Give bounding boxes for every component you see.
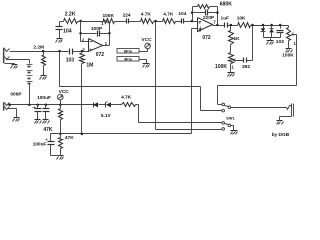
svg-text:by DGB: by DGB xyxy=(272,132,290,138)
svg-text:392: 392 xyxy=(242,64,250,70)
svg-text:072: 072 xyxy=(96,52,105,58)
svg-text:103: 103 xyxy=(276,39,284,45)
svg-text:6: 6 xyxy=(199,20,201,24)
svg-text:220P: 220P xyxy=(203,15,215,21)
svg-text:5.1V: 5.1V xyxy=(101,113,112,119)
svg-text:100K: 100K xyxy=(282,53,294,59)
svg-text:100P: 100P xyxy=(91,26,103,32)
svg-text:1M: 1M xyxy=(86,62,93,68)
svg-text:4.7K: 4.7K xyxy=(141,12,152,18)
svg-text:1uF: 1uF xyxy=(221,15,230,21)
svg-text:5: 5 xyxy=(199,29,201,33)
svg-text:10K: 10K xyxy=(237,15,246,21)
svg-text:2: 2 xyxy=(82,38,84,42)
svg-text:006P: 006P xyxy=(10,91,22,97)
svg-text:VCC: VCC xyxy=(141,37,152,43)
svg-text:47K: 47K xyxy=(43,127,53,133)
svg-text:100K: 100K xyxy=(102,13,114,19)
svg-text:680K: 680K xyxy=(220,2,233,8)
svg-text:1K: 1K xyxy=(234,36,241,42)
svg-text:47K: 47K xyxy=(65,135,74,141)
svg-text:072: 072 xyxy=(202,35,211,41)
svg-text:224: 224 xyxy=(123,13,131,19)
svg-text:2.2K: 2.2K xyxy=(65,11,76,17)
svg-text:4.7K: 4.7K xyxy=(163,12,174,18)
svg-text:4Pin: 4Pin xyxy=(124,57,133,62)
svg-text:100uF: 100uF xyxy=(33,142,47,148)
svg-text:104: 104 xyxy=(178,11,186,17)
svg-text:VCC: VCC xyxy=(59,89,70,95)
svg-text:103: 103 xyxy=(66,58,75,64)
svg-text:SW1: SW1 xyxy=(226,115,235,120)
svg-text:8Pin: 8Pin xyxy=(124,49,133,54)
svg-text:100uF: 100uF xyxy=(37,95,51,101)
svg-text:4.7K: 4.7K xyxy=(121,95,132,101)
svg-text:104: 104 xyxy=(63,29,72,35)
svg-text:2.2M: 2.2M xyxy=(33,45,44,51)
svg-text:100K: 100K xyxy=(215,64,227,70)
